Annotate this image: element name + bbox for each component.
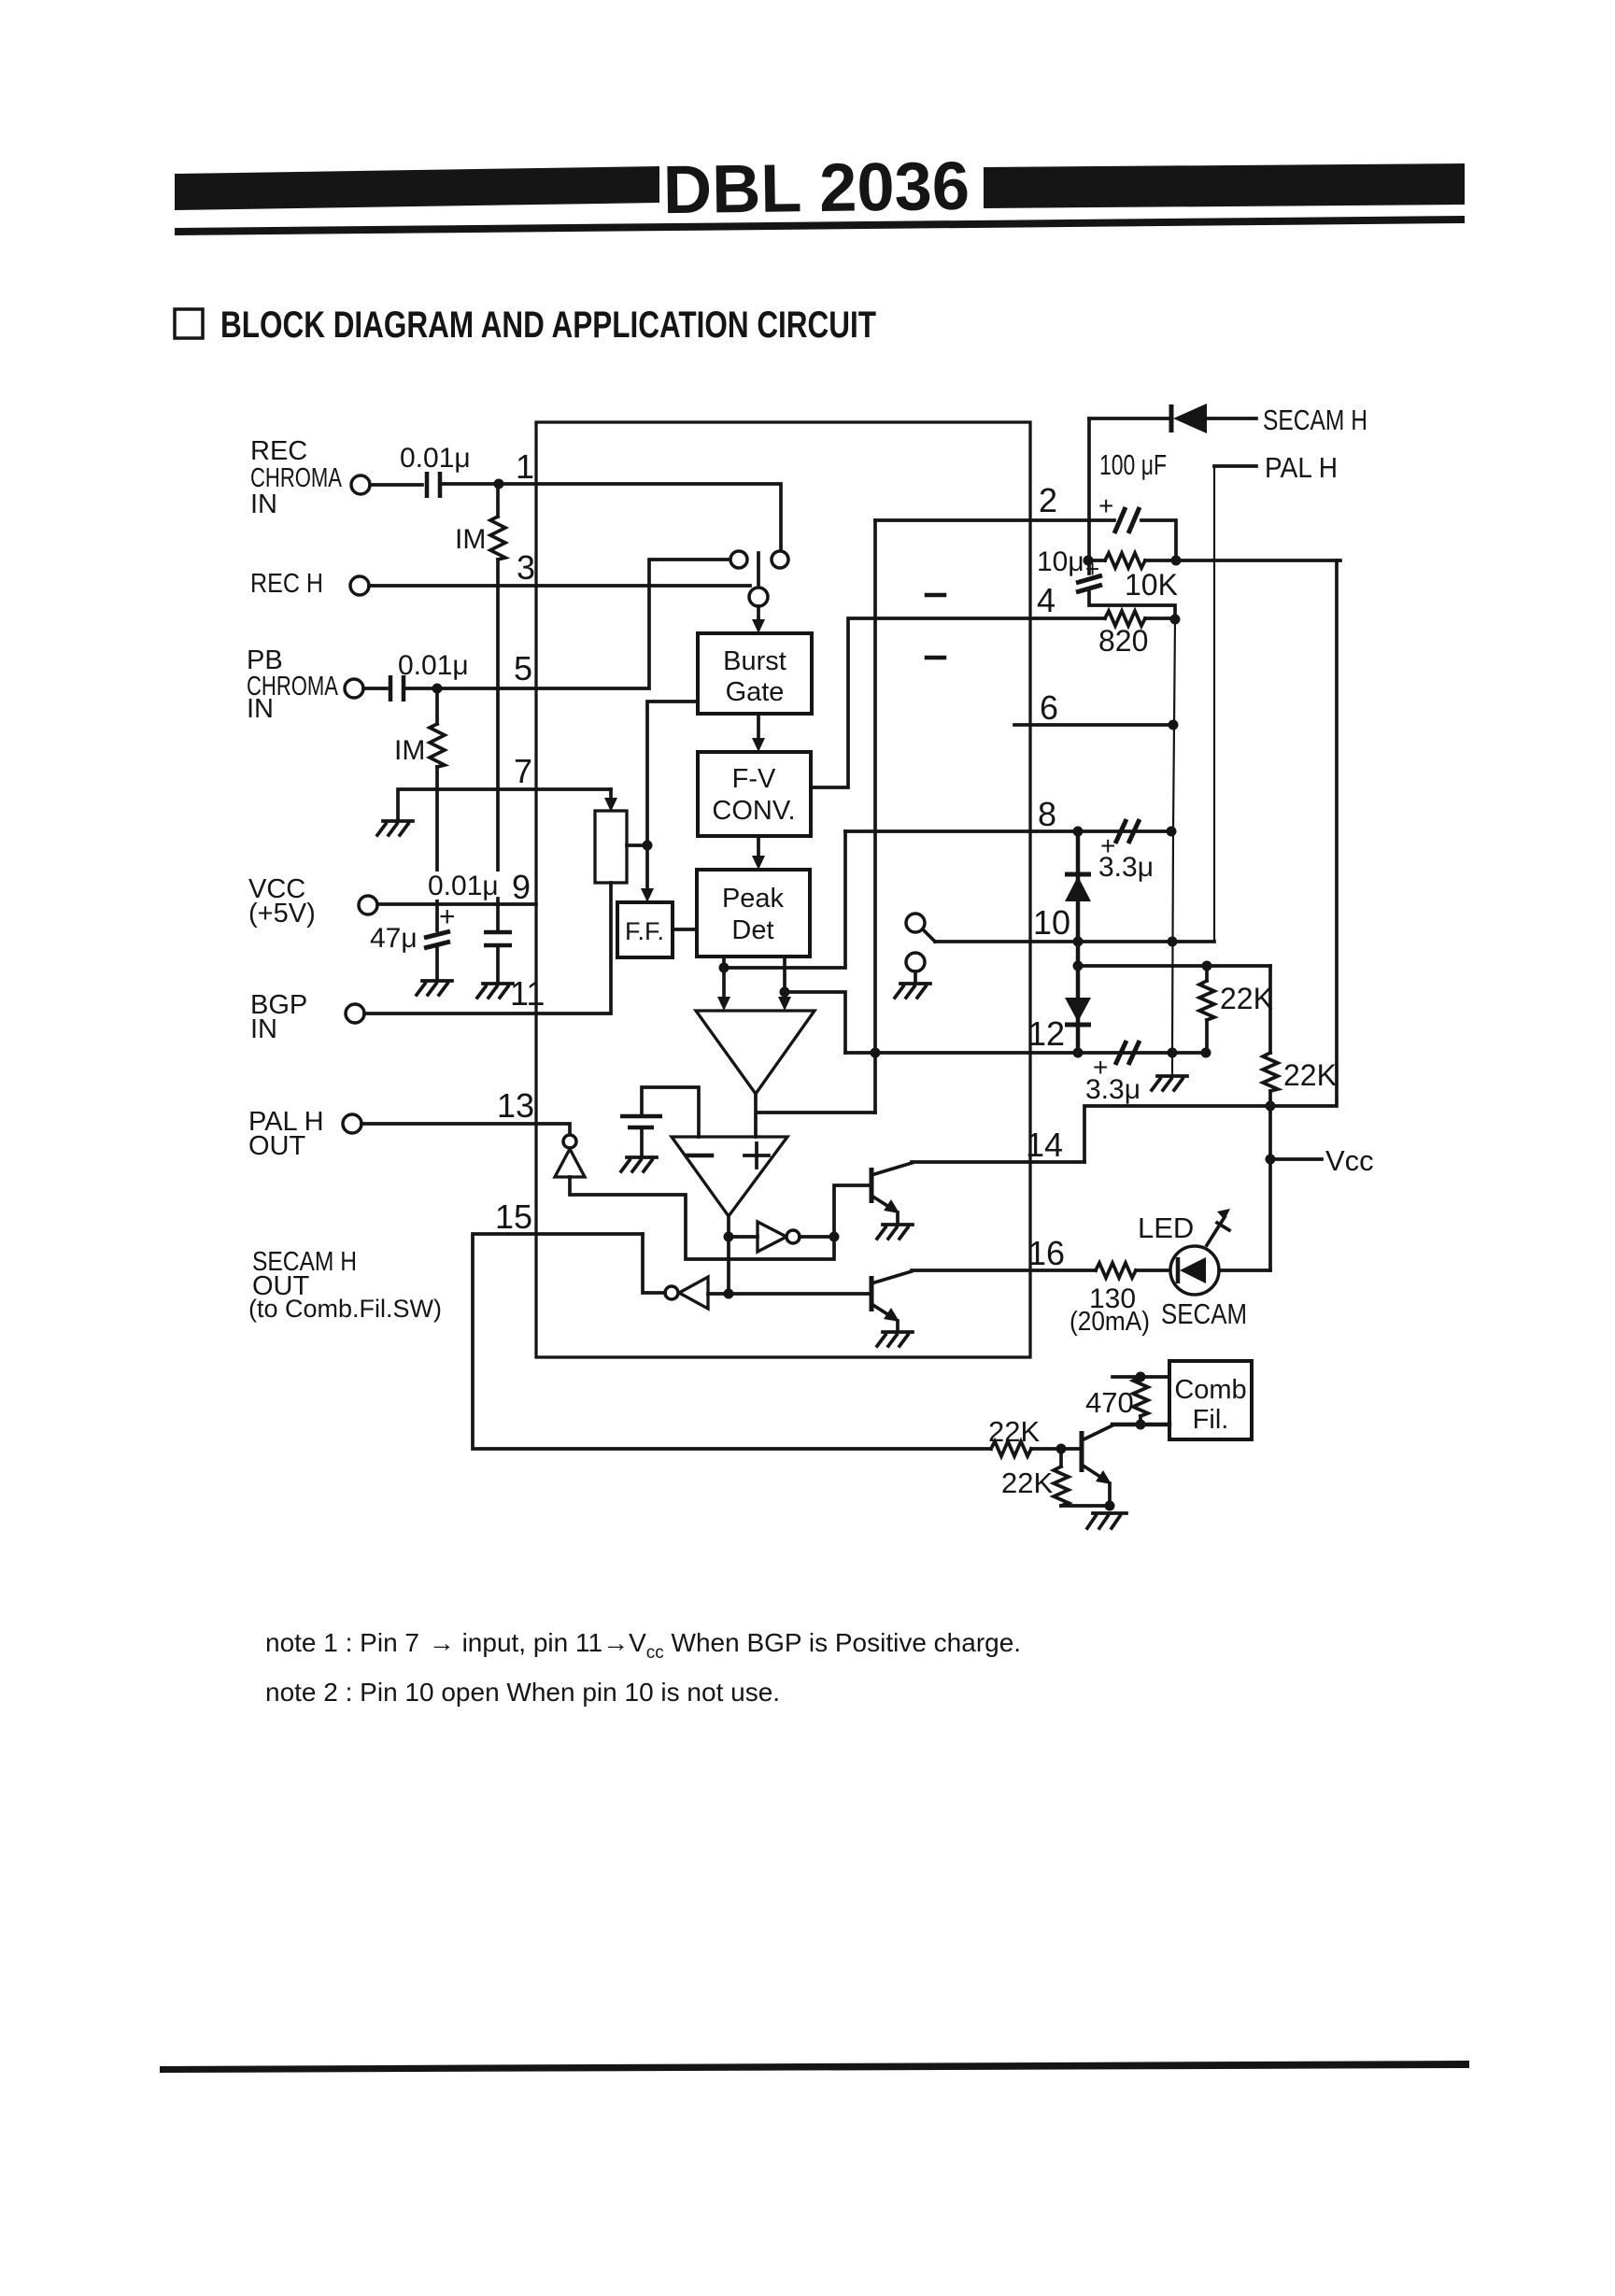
wire C4 bottom to ground <box>640 1127 644 1155</box>
section checkbox <box>175 309 203 338</box>
svg-text:10μ: 10μ <box>1037 546 1084 577</box>
svg-text:9: 9 <box>512 868 531 906</box>
diode D1 wire <box>1076 831 1081 942</box>
svg-text:6: 6 <box>1040 688 1058 727</box>
svg-text:2: 2 <box>1039 481 1057 519</box>
header right bar <box>984 163 1465 208</box>
svg-text:22K: 22K <box>1283 1058 1337 1092</box>
minus mark upper <box>927 593 944 598</box>
node pin5 junction <box>432 684 443 694</box>
arrow F-V to Peak Det <box>757 836 760 857</box>
svg-text:F-V: F-V <box>732 764 776 794</box>
block Peak Det <box>697 870 810 957</box>
capacitor C1 0.01u plates <box>427 472 440 498</box>
wire pin16 row <box>912 1268 1096 1272</box>
transistor Q1 emitter <box>871 1196 895 1211</box>
LED circle <box>1170 1246 1219 1295</box>
ground right bus <box>1152 1076 1187 1090</box>
wire 22K to comb transistor <box>991 1441 1031 1456</box>
wire pin7 net <box>398 789 611 819</box>
wire pin14 link row <box>1084 560 1337 1162</box>
wire Q1 emitter to ground <box>896 1212 900 1223</box>
ground Q1 <box>877 1225 913 1239</box>
wire pin13 net <box>361 1124 570 1135</box>
svg-text:Comb: Comb <box>1174 1375 1246 1405</box>
node pin8 left junction <box>1073 827 1084 837</box>
wire pin12 row <box>845 1051 1207 1055</box>
switch S2 lower circle <box>906 953 925 971</box>
svg-text:DBL 2036: DBL 2036 <box>662 149 970 229</box>
op-amp U1 input wire 1 <box>722 957 726 998</box>
svg-text:47μ: 47μ <box>370 923 418 954</box>
transistor Q1 collector <box>871 1163 912 1175</box>
block Burst Gate <box>698 633 812 714</box>
svg-text:IN: IN <box>247 694 274 724</box>
inverter C triangle <box>758 1222 786 1252</box>
wire right bus vertical <box>1172 619 1175 1074</box>
wire to inverter D input <box>708 1292 729 1296</box>
node 22K bottom junction <box>1266 1101 1276 1112</box>
label C3 0.01u with 9 <box>422 872 516 900</box>
diode D2 cathode bar <box>1065 1023 1091 1028</box>
svg-text:3.3μ: 3.3μ <box>1098 852 1154 883</box>
svg-text:SECAM: SECAM <box>1161 1297 1247 1330</box>
svg-text:0.01μ: 0.01μ <box>428 871 499 901</box>
node pin12 22K junction <box>1201 1048 1211 1058</box>
ground Q3 <box>1087 1513 1126 1528</box>
capacitor C3 0.01u plates <box>484 932 512 945</box>
svg-text:0.01μ: 0.01μ <box>400 443 471 474</box>
ground under C4 <box>621 1157 657 1171</box>
switch S1 contact B circle <box>772 551 788 568</box>
terminal REC H <box>350 576 369 595</box>
wire C4 top to U2 minus input <box>642 1087 699 1137</box>
ground pin7 <box>377 821 413 835</box>
svg-text:Peak: Peak <box>722 884 785 914</box>
label VCC (+5V) <box>248 874 316 928</box>
svg-text:CONV.: CONV. <box>712 796 795 826</box>
node 10K right junction <box>1171 556 1182 566</box>
svg-text:(+5V): (+5V) <box>248 899 316 928</box>
arrow switch to Burst Gate <box>757 606 760 620</box>
terminal BGP <box>346 1004 364 1023</box>
node 10u junction <box>1084 556 1094 566</box>
svg-text:OUT: OUT <box>248 1131 306 1161</box>
wire pin9 VCC net <box>377 902 536 906</box>
label PAL H OUT <box>248 1107 324 1161</box>
svg-text:REC: REC <box>250 436 307 466</box>
node input2 junction <box>780 987 790 998</box>
resistor R5 22K <box>1202 961 1212 971</box>
svg-text:F.F.: F.F. <box>625 917 664 945</box>
svg-text:Det: Det <box>731 915 773 945</box>
terminal PB CHROMA IN <box>345 679 363 698</box>
resistor R9 22K <box>1059 1449 1063 1467</box>
label BGP IN <box>250 990 307 1044</box>
resistor R10 470 <box>1133 1377 1148 1416</box>
op-amp U1 input wire 2 <box>783 957 786 998</box>
inverter E triangle <box>555 1149 585 1177</box>
node pin12 ground junction <box>1168 1048 1178 1058</box>
node pot tap junction <box>643 841 653 851</box>
svg-text:+: + <box>439 901 456 932</box>
svg-text:Vcc: Vcc <box>1325 1144 1374 1177</box>
wire pot tap <box>627 843 647 847</box>
wire pin8 row <box>845 829 1171 833</box>
diode D3 triangle <box>1173 404 1207 433</box>
wire pin1 net to switch <box>443 484 781 551</box>
svg-text:Fil.: Fil. <box>1193 1405 1229 1435</box>
svg-text:(20mA): (20mA) <box>1070 1307 1150 1337</box>
inverter D bubble <box>665 1286 678 1299</box>
wire inverter C output <box>800 1185 871 1237</box>
arrow pin7 into pot <box>609 789 613 801</box>
svg-text:IM: IM <box>394 735 425 766</box>
diode D1 triangle <box>1065 876 1091 901</box>
capacitor C8 3.3u electrolytic <box>1115 819 1140 843</box>
node pin10 diode junction <box>1073 937 1084 947</box>
header rule line <box>175 216 1465 235</box>
svg-text:note 2 : Pin 10 open When pin: note 2 : Pin 10 open When pin 10 is not … <box>265 1678 780 1707</box>
capacitor C9 3.3u electrolytic <box>1115 1041 1140 1065</box>
label PB CHROMA IN <box>247 645 338 724</box>
transistor Q2 base bar <box>870 1276 874 1311</box>
switch S2 arm <box>923 929 935 942</box>
switch S1 common circle <box>749 588 768 606</box>
svg-text:1: 1 <box>516 447 534 486</box>
wire F.F. to Peak Det <box>673 928 697 931</box>
wire to inverter C <box>729 1235 758 1239</box>
svg-text:(to Comb.Fil.SW): (to Comb.Fil.SW) <box>248 1295 442 1323</box>
svg-text:16: 16 <box>1027 1234 1065 1272</box>
ground under 47u <box>417 981 452 995</box>
wire Q3 collector to Comb Fil <box>1112 1423 1169 1427</box>
svg-text:22K: 22K <box>1001 1467 1053 1499</box>
wire pin4 row from F-V <box>812 618 1105 787</box>
svg-text:7: 7 <box>514 752 532 790</box>
ground Q2 <box>877 1332 913 1346</box>
node 470 top junction <box>1136 1372 1146 1382</box>
wire pin14 row <box>912 1160 1084 1164</box>
internal resistor block (pot) <box>595 811 627 883</box>
svg-text:15: 15 <box>495 1198 532 1236</box>
wire Vcc stub <box>1270 1157 1322 1161</box>
transistor Q3 base bar <box>1080 1431 1084 1472</box>
svg-text:note 1 : Pin 7 → input, pin 11: note 1 : Pin 7 → input, pin 11→Vcc When … <box>265 1628 1021 1663</box>
bottom page rule <box>160 2061 1469 2073</box>
wire 470 top row <box>1112 1375 1169 1379</box>
wire PAL H stub <box>1214 464 1256 468</box>
svg-text:22K: 22K <box>1220 982 1273 1015</box>
capacitor C4 to ground at U2 input <box>620 1116 662 1127</box>
svg-text:4: 4 <box>1037 581 1055 619</box>
switch S1 pole bar <box>757 553 760 587</box>
block Comb Fil <box>1169 1361 1252 1439</box>
transistor Q3 emitter <box>1082 1465 1106 1481</box>
op-amp U1 triangle <box>696 1011 815 1094</box>
node pin1 junction <box>494 479 504 489</box>
svg-text:Gate: Gate <box>726 677 785 707</box>
node Q3 base junction <box>1056 1444 1067 1454</box>
inverter D triangle <box>679 1277 708 1309</box>
label SECAM H OUT <box>248 1247 442 1323</box>
svg-text:100 μF: 100 μF <box>1099 448 1167 481</box>
terminal VCC <box>359 896 377 914</box>
wire Burst Gate left to F.F. <box>647 702 698 889</box>
wire inverter D output to pin15 <box>643 1234 665 1293</box>
node pin2 column at pin12 row <box>871 1048 881 1058</box>
wire diode mid link <box>1076 942 1081 1053</box>
svg-text:5: 5 <box>514 649 532 687</box>
svg-text:820: 820 <box>1098 624 1148 658</box>
IC package outline <box>536 422 1030 1357</box>
resistor R4 820 <box>1105 611 1145 626</box>
switch S1 contact A circle <box>730 551 747 568</box>
wire pin2 column vertical <box>873 520 877 1113</box>
svg-text:8: 8 <box>1038 795 1056 833</box>
resistor R7 130 <box>1096 1263 1136 1278</box>
switch S2 upper circle <box>906 914 925 932</box>
resistor R2 1M <box>435 688 439 724</box>
wire Q2 emitter to ground <box>896 1321 900 1330</box>
svg-text:LED: LED <box>1138 1212 1194 1244</box>
arrow into F.F. <box>641 888 654 902</box>
wire pin3 net <box>369 584 750 588</box>
terminal PAL H OUT <box>343 1114 361 1133</box>
node diode mid junction <box>1073 961 1084 971</box>
svg-text:470: 470 <box>1085 1386 1134 1419</box>
wire U1 output <box>756 1094 875 1137</box>
wire pin11 BGP net <box>364 883 611 1013</box>
node pin6 junction <box>1169 720 1179 730</box>
svg-text:12: 12 <box>1027 1014 1065 1053</box>
LED indicator arrow <box>1207 1217 1225 1245</box>
wire Q3 emitter down <box>1108 1483 1112 1506</box>
terminal REC CHROMA IN <box>351 475 370 494</box>
op-amp U2 triangle <box>672 1137 787 1216</box>
wire pin5 net to switch contact <box>406 560 730 688</box>
wire input1 to pin8 column <box>724 831 845 968</box>
diode D3 cathode bar <box>1169 404 1174 432</box>
wire D3 to SECAM H label <box>1207 417 1256 420</box>
node pin10 bus junction <box>1168 937 1178 947</box>
svg-text:3: 3 <box>517 548 535 587</box>
svg-text:Burst: Burst <box>723 646 786 676</box>
svg-text:+: + <box>1098 491 1113 520</box>
svg-text:10K: 10K <box>1125 568 1178 602</box>
wire 22K top link <box>1078 964 1270 968</box>
resistor R3 10K <box>1088 559 1105 562</box>
U2 plus sign <box>744 1143 769 1168</box>
transistor Q1 base bar <box>870 1168 874 1203</box>
capacitor C2 0.01u plates <box>390 675 404 702</box>
svg-text:IN: IN <box>250 1014 277 1044</box>
capacitor C7 10u electrolytic <box>1087 560 1091 574</box>
svg-text:22K: 22K <box>988 1415 1040 1448</box>
diode D1 cathode bar <box>1065 872 1091 877</box>
capacitor C5 47u electrolytic <box>424 931 450 948</box>
transistor Q3 collector <box>1082 1425 1112 1440</box>
svg-text:10: 10 <box>1033 903 1070 942</box>
wire LED to Vcc drop <box>1219 1268 1270 1272</box>
wire pin15 net <box>473 1234 991 1449</box>
wire SECAM H diode net vertical <box>1087 418 1091 560</box>
wire inverter E input path <box>570 1177 834 1259</box>
minus mark lower <box>927 656 944 660</box>
wire R1 line to C3 <box>496 899 500 932</box>
U2 minus sign <box>687 1154 712 1158</box>
wire pin2 row <box>875 520 1176 560</box>
node emitter ground junction <box>1105 1501 1115 1511</box>
svg-text:IM: IM <box>455 524 486 555</box>
node 820 right junction <box>1170 615 1181 625</box>
wire S2 to ground <box>914 971 917 982</box>
ground S2 <box>895 984 930 998</box>
node input1 junction <box>719 963 730 973</box>
svg-text:PAL H: PAL H <box>1265 451 1338 484</box>
ground under C3 <box>477 984 513 998</box>
node 470 bottom junction <box>1136 1420 1146 1430</box>
header left bar <box>175 166 659 210</box>
node pin12 diode junction <box>1073 1048 1084 1058</box>
wire PAL H vertical to pin10 <box>1213 466 1215 942</box>
svg-text:SECAM H: SECAM H <box>1263 404 1367 436</box>
LED cathode bar <box>1176 1257 1181 1283</box>
svg-text:BLOCK DIAGRAM AND APPLICATION: BLOCK DIAGRAM AND APPLICATION CIRCUIT <box>220 305 876 346</box>
wire to Q2 base <box>729 1292 871 1296</box>
node U2 output junction 1 <box>724 1232 734 1242</box>
transistor Q2 emitter <box>871 1304 895 1319</box>
inverter E bubble <box>563 1135 576 1148</box>
inverter C bubble <box>786 1230 800 1243</box>
wire to diode D3 <box>1089 417 1168 420</box>
svg-text:13: 13 <box>497 1086 534 1125</box>
transistor Q2 collector <box>871 1271 912 1283</box>
wire pin5 input <box>363 687 387 690</box>
wire C7 bottom L to 820 node <box>1089 592 1175 619</box>
node U2 output junction 2 <box>724 1289 734 1299</box>
wire right drop vertical <box>1268 966 1272 1270</box>
node Vcc junction <box>1266 1155 1276 1165</box>
wire U2 output vertical <box>727 1216 730 1294</box>
wire pin10 row <box>935 940 1214 943</box>
svg-text:IN: IN <box>250 489 277 519</box>
block F.F. <box>617 902 673 957</box>
arrow Burst Gate to F-V <box>757 714 760 739</box>
svg-text:3.3μ: 3.3μ <box>1085 1074 1140 1105</box>
wire pin1 input <box>370 483 422 487</box>
node inverter C output junction <box>829 1232 840 1242</box>
resistor R1 1M <box>496 484 500 517</box>
node pin8 right junction <box>1167 827 1177 837</box>
svg-text:11: 11 <box>510 974 545 1013</box>
diode D2 triangle <box>1065 998 1091 1022</box>
svg-text:14: 14 <box>1026 1126 1063 1164</box>
capacitor C6 100uF plates <box>1114 507 1140 533</box>
label REC CHROMA IN <box>250 436 342 519</box>
resistor R6 22K <box>1263 1053 1278 1091</box>
svg-text:REC H: REC H <box>250 569 323 599</box>
block F-V CONV <box>698 752 811 836</box>
wire input2 to pin12 column <box>785 992 845 1053</box>
LED triangle <box>1180 1257 1206 1283</box>
svg-text:0.01μ: 0.01μ <box>398 650 469 681</box>
wire pin6 row <box>1014 723 1173 727</box>
